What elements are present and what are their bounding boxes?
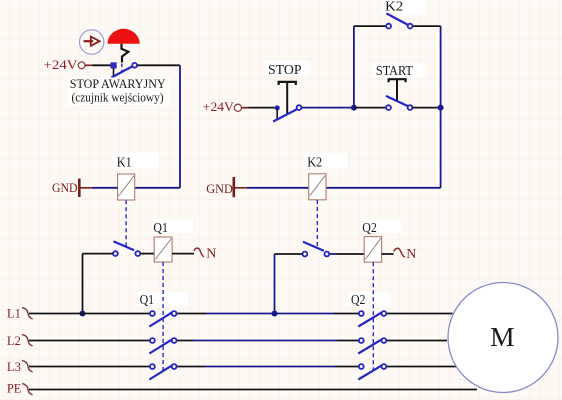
dashed link K1 coil to contact — [125, 200, 127, 246]
label STOP AWARYJNY — [68, 77, 170, 105]
dashed link K2 coil to contact — [316, 200, 318, 248]
svg-text:START: START — [376, 63, 414, 78]
junction — [438, 105, 444, 111]
wire — [354, 25, 386, 27]
svg-text:L1: L1 — [7, 306, 21, 321]
svg-text:Q2: Q2 — [351, 293, 366, 308]
svg-text:K2: K2 — [307, 155, 322, 170]
dashed actuator link — [121, 64, 123, 73]
emergency stop switch S1 (NC) — [111, 62, 138, 77]
N entry squiggle — [394, 248, 405, 257]
wire PE — [29, 389, 477, 391]
wire — [326, 187, 441, 189]
wire L2 right — [386, 340, 447, 342]
power port +24V (right) — [203, 99, 249, 114]
svg-text:STOP AWARYJNY: STOP AWARYJNY — [70, 77, 166, 91]
net label L1 with entry — [7, 306, 33, 321]
svg-text:Q2: Q2 — [362, 221, 377, 236]
label K2 (top) — [382, 0, 426, 15]
power port GND (left) — [52, 179, 92, 198]
wire L1 right — [386, 313, 452, 315]
wire — [135, 187, 180, 189]
contactor coil Q1 — [154, 237, 172, 262]
svg-text:L3: L3 — [7, 359, 21, 374]
main contact Q1-L2 — [149, 338, 176, 353]
contactor coil Q2 — [364, 237, 381, 263]
label Q2 (coil) — [361, 219, 401, 236]
power port +24V (left) — [44, 57, 93, 72]
wire — [82, 254, 84, 314]
wire — [179, 65, 181, 188]
wire — [274, 254, 276, 314]
net label PE with entry — [7, 381, 33, 396]
pushbutton START (NO) — [386, 79, 413, 110]
dashed link Q1 coil to main contacts — [162, 262, 164, 371]
svg-text:+24V: +24V — [44, 57, 79, 72]
wire — [301, 107, 354, 109]
wire L1 left — [29, 313, 150, 315]
label Q2 (main contacts) — [348, 292, 390, 308]
label K1 — [113, 153, 160, 171]
wire — [247, 187, 309, 189]
wire — [137, 64, 180, 66]
wire L3 left — [29, 366, 150, 368]
svg-text:(czujnik wejściowy): (czujnik wejściowy) — [72, 90, 164, 104]
label K2 (coil) — [305, 153, 348, 170]
wire — [353, 26, 355, 108]
power port GND (right) — [206, 177, 247, 197]
svg-text:Q1: Q1 — [153, 221, 168, 236]
wire — [172, 253, 194, 255]
dashed link Q2 coil to main contacts — [372, 262, 374, 371]
main contact Q2-L1 — [358, 311, 386, 326]
wire — [92, 187, 118, 189]
contact K2 aux (NO) — [303, 242, 330, 257]
svg-text:PE: PE — [7, 381, 22, 396]
wire — [412, 107, 440, 109]
junction — [272, 311, 278, 317]
pushbutton STOP (NC) — [273, 82, 301, 122]
wire L3 middle (pin stubs black, wire navy) — [177, 366, 206, 368]
svg-text:STOP: STOP — [268, 63, 302, 78]
svg-text:N: N — [206, 246, 216, 261]
junction — [80, 311, 86, 317]
wire — [354, 107, 386, 109]
svg-text:K1: K1 — [117, 155, 132, 170]
wire L1 middle (pin stubs black, wire navy) — [177, 313, 207, 315]
wire L2 middle (pin stubs black, wire navy) — [177, 340, 194, 342]
svg-text:N: N — [406, 247, 416, 262]
N entry squiggle — [194, 248, 204, 257]
main contact Q2-L3 — [358, 364, 386, 379]
main contact Q1-L3 — [149, 364, 176, 379]
main contact Q1-L1 — [149, 311, 176, 326]
junction — [351, 105, 357, 111]
wire — [382, 253, 394, 255]
main contact Q2-L2 — [358, 338, 386, 353]
net label L2 with entry — [7, 333, 33, 348]
wire L3 right — [386, 366, 456, 368]
label STOP — [264, 61, 310, 79]
sensor symbol (input sensor icon) — [80, 30, 104, 54]
wire — [275, 253, 303, 255]
wire — [413, 25, 441, 27]
svg-text:K2: K2 — [385, 0, 403, 15]
net label L3 with entry — [7, 359, 33, 374]
relay coil K1 — [118, 174, 135, 200]
wire — [140, 253, 154, 255]
wire L2 left — [29, 340, 150, 342]
wire — [440, 26, 442, 108]
svg-text:GND: GND — [206, 181, 233, 196]
wire — [329, 253, 336, 255]
svg-text:L2: L2 — [7, 333, 21, 348]
label Q1 (main contacts) — [137, 292, 189, 308]
wire — [93, 64, 112, 66]
wire — [249, 107, 275, 109]
wire — [440, 108, 442, 188]
svg-text:Q1: Q1 — [140, 293, 155, 308]
label Q1 (coil) — [152, 219, 193, 236]
contact K1 aux (NO) — [113, 241, 140, 256]
wire — [83, 253, 114, 255]
motor M — [448, 283, 558, 393]
relay coil K2 — [309, 174, 326, 200]
svg-text:GND: GND — [52, 180, 78, 195]
svg-text:+24V: +24V — [203, 99, 235, 114]
contact K2 (NO, seal-in) — [386, 13, 412, 28]
label START — [373, 63, 425, 78]
svg-text:M: M — [490, 321, 514, 352]
emergency stop mushroom actuator — [108, 29, 140, 63]
